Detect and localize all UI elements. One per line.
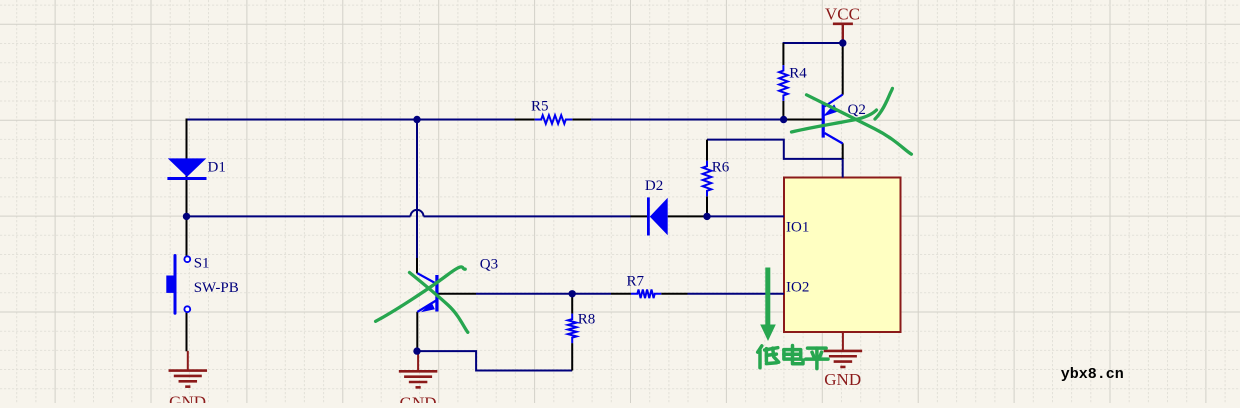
svg-text:D2: D2 [645,178,663,194]
svg-text:GND: GND [400,394,437,404]
svg-text:VCC: VCC [825,4,860,23]
svg-text:ybx8.cn: ybx8.cn [1061,366,1124,383]
svg-text:R4: R4 [789,66,807,82]
svg-text:Q3: Q3 [480,256,498,272]
svg-text:R7: R7 [627,273,645,289]
svg-text:IO1: IO1 [786,219,809,235]
svg-text:GND: GND [169,393,206,404]
svg-text:R5: R5 [531,98,549,114]
svg-text:R6: R6 [712,159,730,175]
svg-text:S1: S1 [194,256,210,272]
svg-text:GND: GND [824,370,861,389]
svg-text:D1: D1 [208,160,226,176]
svg-text:IO2: IO2 [786,280,809,296]
svg-text:R8: R8 [578,311,596,327]
svg-text:SW-PB: SW-PB [194,280,239,296]
